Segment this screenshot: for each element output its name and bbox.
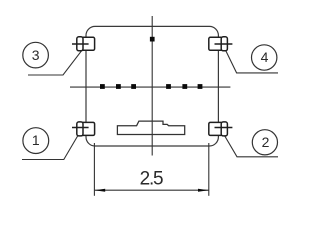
dimension line [94, 189, 208, 191]
svg-text:1: 1 [32, 132, 40, 148]
balloon 4 circle [252, 45, 277, 70]
svg-text:4: 4 [261, 49, 269, 65]
leader line balloon 1 [22, 134, 79, 160]
node mark 4 on horizontal line [166, 84, 171, 89]
pin 2 (bottom-right terminal) [209, 122, 233, 136]
dimension extension line right [208, 143, 210, 196]
pin 3 (top-left terminal) [72, 37, 95, 51]
vertical center line [151, 16, 153, 156]
pin 1 (bottom-left terminal) [72, 122, 95, 136]
svg-text:2.5: 2.5 [140, 169, 163, 190]
node mark 6 on horizontal line [198, 84, 203, 89]
svg-text:3: 3 [32, 47, 40, 63]
dimension arrow right [198, 189, 209, 192]
node mark top on vertical line [150, 37, 155, 42]
node mark 2 on horizontal line [116, 84, 121, 89]
horizontal center line [70, 86, 230, 88]
balloon 2 circle [252, 130, 277, 155]
actuator bump profile [117, 121, 184, 134]
balloon 3 circle [23, 42, 49, 68]
node mark 1 on horizontal line [100, 84, 105, 89]
leader line balloon 3 [28, 50, 82, 75]
node mark 3 on horizontal line [131, 84, 136, 89]
leader line balloon 4 [224, 47, 278, 73]
balloon 1 circle [23, 128, 49, 154]
node mark 5 on horizontal line [182, 84, 187, 89]
leader line balloon 2 [223, 133, 278, 157]
switch body outline [86, 26, 218, 146]
dimension extension line left [93, 143, 95, 196]
dimension arrow left [94, 189, 105, 192]
svg-text:2: 2 [262, 134, 270, 150]
pin 4 (top-right terminal) [209, 37, 233, 51]
